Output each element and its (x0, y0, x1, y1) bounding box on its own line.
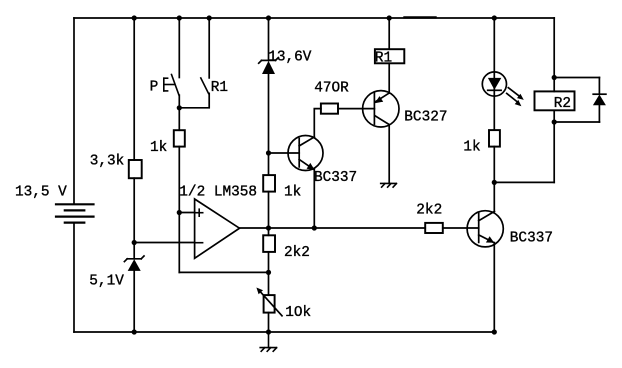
svg-text:13,6V: 13,6V (268, 50, 312, 66)
wire base Q1 (269, 152, 300, 154)
wire 1k to output node (268, 192, 270, 228)
node dot op-amp output (266, 225, 271, 230)
svg-text:BC337: BC337 (314, 170, 357, 186)
wire Q3 collector up (493, 182, 495, 211)
wire feedback node to pot (268, 272, 270, 295)
node dot top rail / 13,6V zener (266, 15, 271, 20)
wire output node to 2k2 (268, 228, 270, 235)
resistor 1k pullup (174, 130, 185, 146)
wire feedback horizontal (179, 271, 268, 273)
ground symbol Q2 (381, 183, 397, 187)
wire pot to ground rail (268, 313, 270, 332)
wire R1 contact branch upper (208, 18, 210, 78)
ground symbol main (260, 332, 276, 351)
wire P switch bottom (178, 95, 180, 108)
transistor Q1 BC337 (288, 136, 323, 171)
op-amp U1 1/2 LM358 (195, 199, 240, 258)
wire Q2 collector to ground (388, 125, 390, 184)
svg-text:1/2 LM358: 1/2 LM358 (179, 184, 257, 200)
node dot top rail / LED (492, 15, 497, 20)
wire Q2 emitter to relay coil (388, 63, 390, 93)
svg-text:P: P (150, 79, 159, 95)
svg-text:13,5 V: 13,5 V (15, 185, 67, 201)
wire top rail thick artifact (405, 16, 436, 18)
wire Q1 collector to 470R (314, 109, 321, 137)
resistor 470R (321, 104, 338, 114)
wire zener to base node (268, 74, 270, 153)
wire feedback vertical (178, 213, 180, 273)
transistor Q3 BC337 (467, 211, 503, 247)
battery B1 13,5V (56, 204, 94, 222)
wire top rail right corner down (553, 18, 555, 91)
wire R1 contact bottom (179, 93, 209, 107)
node dot ground rail / pot (266, 329, 271, 334)
wire left rail battery top (73, 18, 75, 204)
wire 470R to Q2 base (338, 108, 374, 110)
svg-text:5,1V: 5,1V (89, 273, 124, 289)
resistor 1k LED (489, 130, 500, 147)
LED light arrow 1 (508, 88, 524, 100)
node dot switch junction (177, 105, 182, 110)
svg-text:R1: R1 (375, 51, 392, 67)
wire Q1 emitter to output row (313, 169, 315, 228)
diode D4 flyback (593, 78, 606, 123)
wire diode top row (554, 77, 599, 79)
wire to + input (179, 212, 194, 214)
wire 3,3k to zener junction (133, 178, 135, 242)
svg-text:1k: 1k (284, 185, 301, 201)
wire top supply rail (74, 17, 554, 19)
LED D3 (482, 72, 506, 96)
wire LED branch upper (493, 18, 495, 130)
svg-text:BC327: BC327 (404, 110, 447, 126)
wire diode bottom row (554, 121, 599, 123)
LED light arrow 2 (507, 93, 522, 106)
node dot R2 bottom / diode (552, 119, 557, 124)
wire battery bottom to ground rail (73, 223, 75, 332)
wire relay coil to top rail (388, 18, 390, 49)
wire 3,3k branch upper (133, 18, 135, 160)
node dot top rail / R1 contact (207, 15, 212, 20)
svg-text:1k: 1k (150, 140, 167, 156)
transistor Q2 BC327 (363, 91, 399, 127)
svg-text:R2: R2 (554, 96, 571, 112)
node dot top rail / relay R1 (387, 15, 392, 20)
node dot top rail / 3,3k (132, 15, 137, 20)
wire bottom ground rail (74, 331, 494, 333)
zener D2 5,1V (124, 256, 144, 271)
wire zener junction to zener bar (133, 243, 135, 259)
wire base node to 1k (268, 153, 270, 175)
node dot collector / LED / R2 (492, 180, 497, 185)
node dot non-inverting input (177, 210, 182, 215)
wire 1k LED to collector node (493, 147, 495, 183)
resistor 2k2 base Q3 (425, 223, 443, 233)
relay coil R1 (375, 49, 404, 63)
wire P switch branch upper (178, 18, 180, 78)
svg-text:3,3k: 3,3k (90, 154, 125, 170)
svg-text:2k2: 2k2 (284, 245, 310, 261)
wire 13,6V zener branch upper (268, 18, 270, 60)
potentiometer 10k (256, 288, 282, 316)
node dot base node Q1 (266, 150, 271, 155)
wire op-amp output row (240, 227, 426, 229)
wire 2k2 to feedback node (268, 252, 270, 273)
svg-text:1Ok: 1Ok (285, 305, 311, 321)
svg-text:BC337: BC337 (510, 231, 553, 247)
op-amp + symbol (196, 209, 203, 216)
wire Q3 emitter to ground rail (493, 243, 495, 332)
wire switch junction to 1k (178, 108, 180, 130)
zener D1 13,6V (259, 58, 279, 74)
resistor 2k2 feedback (263, 235, 275, 252)
pushbutton P (164, 75, 179, 96)
node dot feedback divider (266, 270, 271, 275)
wire 2k2 to Q3 base (443, 227, 479, 229)
svg-text:1k: 1k (463, 140, 480, 156)
wire collector node to R2 branch (494, 181, 554, 183)
wire 1k to non-inverting input (178, 147, 180, 213)
node dot ground rail right (492, 329, 497, 334)
resistor 3,3k (129, 160, 142, 178)
node dot zener / inverting input (132, 240, 137, 245)
wire R2 bottom (553, 110, 555, 182)
node dot zener ground (132, 329, 137, 334)
node dot R2 top / diode (552, 75, 557, 80)
node dot emitter / output row (312, 225, 317, 230)
node dot top rail / P switch (177, 15, 182, 20)
op-amp - symbol (195, 242, 203, 244)
svg-text:R1: R1 (211, 80, 228, 96)
wire inverting input from zener node (134, 242, 194, 244)
wire zener to ground rail (133, 271, 135, 332)
svg-text:47OR: 47OR (314, 81, 349, 97)
resistor 1k op-amp output (263, 175, 275, 192)
relay contact R1 (201, 78, 209, 93)
svg-text:2k2: 2k2 (416, 202, 442, 218)
relay coil R2 (535, 91, 575, 110)
